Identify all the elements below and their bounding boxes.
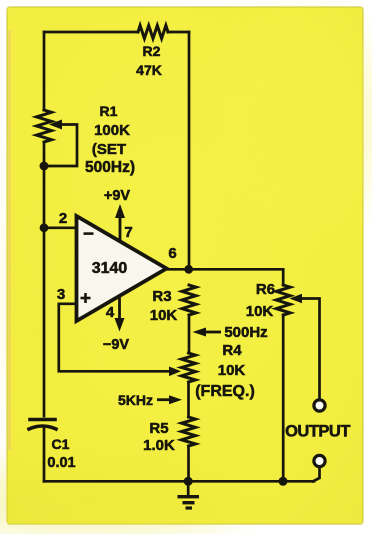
svg-text:10K: 10K [218,362,246,379]
wire from R2 to right rail corner [168,31,189,34]
-9V supply arrow pin 4 [115,318,125,332]
svg-text:10K: 10K [150,307,178,324]
svg-text:R1: R1 [100,103,118,119]
ground symbol bars [178,495,200,498]
capacitor C1 [29,420,56,430]
svg-text:500Hz: 500Hz [224,324,267,341]
wire top from left rail to R2 [44,31,138,34]
svg-text:+9V: +9V [104,188,131,204]
svg-text:(SET: (SET [92,141,126,158]
wire R4 to R5 [187,382,190,417]
svg-text:4: 4 [106,304,115,321]
wire R3 to R4 [188,315,191,353]
svg-text:(FREQ.): (FREQ.) [195,383,255,400]
+9V supply arrow pin 7 [115,204,125,218]
wire pin 2 [44,226,77,229]
R6 wiper arrow [290,294,303,304]
wire R5 to bottom rail [187,446,190,481]
svg-text:0.01: 0.01 [47,455,75,471]
svg-text:OUTPUT: OUTPUT [285,423,350,441]
junction node pin 6 [184,265,193,274]
wire left rail bottom segment [43,429,46,481]
svg-text:3: 3 [57,286,65,303]
wire pin 3 [59,304,173,372]
wire right rail down to pin6 node [188,32,191,269]
junction dot R1 bottom [40,162,49,171]
5KHz pointer arrow [169,395,182,404]
svg-text:R5: R5 [149,420,168,437]
wire left rail top segment [43,32,46,110]
svg-text:2: 2 [59,210,67,227]
wire left rail mid segment [43,142,46,416]
svg-text:R6: R6 [256,281,275,298]
potentiometer R4 [182,353,196,382]
svg-text:−9V: −9V [103,337,130,353]
resistor R2 [138,26,168,39]
500Hz pointer arrow [193,328,207,337]
R1 wiper arrow [49,120,62,130]
wire R6 wiper to upper output terminal [296,299,320,399]
resistor R3 [182,285,196,315]
R4 wiper arrow [169,367,181,377]
output terminal upper [314,400,325,411]
svg-text:6: 6 [168,245,176,262]
potentiometer R6 [276,285,290,315]
wire R1 wiper loop to bottom terminal [44,125,77,167]
svg-text:10K: 10K [246,303,274,320]
svg-text:47K: 47K [136,62,162,78]
svg-text:500Hz): 500Hz) [85,159,135,176]
junction dot pin 2 [40,223,49,232]
wire ground stub [187,481,190,495]
wire pin 6 [166,268,189,271]
wire R6 bottom to bottom rail [282,315,285,481]
wire lower output terminal to bottom rail [313,468,320,482]
svg-text:7: 7 [124,224,132,241]
potentiometer R1 [37,110,52,142]
wire node to R6 branch [189,269,284,285]
resistor R5 [182,417,196,446]
wire bottom rail [44,480,314,483]
svg-text:R3: R3 [152,288,171,305]
svg-text:R2: R2 [143,43,161,59]
junction dot ground [184,477,193,486]
svg-text:C1: C1 [52,436,70,452]
svg-text:1.0K: 1.0K [143,437,175,454]
junction dot R6/output [279,477,288,486]
svg-text:5KHz: 5KHz [118,392,153,408]
op-amp U1 3140 [77,216,167,321]
output terminal lower [314,455,325,466]
svg-text:R4: R4 [222,342,242,359]
svg-text:100K: 100K [94,122,130,139]
svg-text:3140: 3140 [92,260,128,277]
